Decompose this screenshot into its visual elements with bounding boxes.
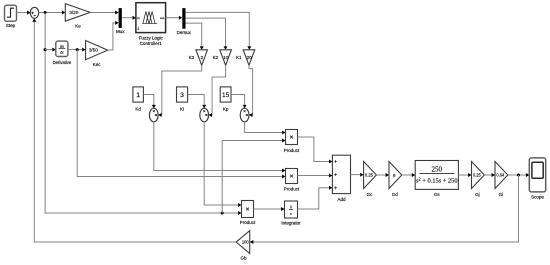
svg-text:3/50: 3/50 xyxy=(89,48,99,53)
wire Demux out3 to K3 xyxy=(186,23,204,50)
wire mult1 to Product2 xyxy=(154,122,286,173)
svg-text:100: 100 xyxy=(242,240,250,245)
svg-text:Kp: Kp xyxy=(223,106,229,111)
svg-text:Add: Add xyxy=(337,197,346,202)
svg-text:Gd: Gd xyxy=(392,192,399,197)
block Fuzzy Logic Controller1 xyxy=(136,3,166,47)
wire K1 to mult3 xyxy=(249,65,253,117)
wire Kec to Mux xyxy=(108,21,119,50)
block Product3 xyxy=(240,201,256,226)
svg-text:Ke: Ke xyxy=(75,24,81,29)
svg-text:Mux: Mux xyxy=(116,29,125,34)
svg-text:Integrator: Integrator xyxy=(281,221,301,226)
gain Gb xyxy=(236,231,250,261)
constant Kd xyxy=(133,87,144,111)
wire Add to Gc xyxy=(351,173,364,177)
svg-text:Gj: Gj xyxy=(475,192,480,197)
wire feedback to Gb xyxy=(250,175,519,244)
wire Sum to Ke, node e xyxy=(39,11,66,15)
svg-text:Product: Product xyxy=(284,186,300,191)
svg-text:Δt: Δt xyxy=(60,51,63,55)
svg-text:Product: Product xyxy=(284,148,300,153)
svg-text:K3: K3 xyxy=(189,55,195,60)
svg-text:Kd: Kd xyxy=(135,106,141,111)
svg-text:Gi: Gi xyxy=(499,192,504,197)
gain Gj xyxy=(472,162,485,197)
wire Gd to Gs xyxy=(402,173,415,177)
gain Gd xyxy=(389,162,402,197)
wire Gb to Sum xyxy=(32,18,236,242)
svg-text:20: 20 xyxy=(246,55,252,61)
svg-text:Step: Step xyxy=(6,23,16,28)
svg-text:K1: K1 xyxy=(236,55,242,60)
wire Gi to Scope xyxy=(508,173,530,177)
block Demux xyxy=(177,8,192,35)
svg-text:9: 9 xyxy=(393,173,396,178)
wire mult2 to Product3 xyxy=(204,122,241,207)
block Product1 xyxy=(284,130,300,153)
svg-text:Kec: Kec xyxy=(93,62,102,67)
sum junction xyxy=(30,7,38,18)
svg-text:Product: Product xyxy=(240,220,256,225)
svg-text:0.64: 0.64 xyxy=(496,173,505,178)
svg-text:K2: K2 xyxy=(213,55,219,60)
wire K3 to mult1 xyxy=(158,65,202,117)
svg-text:Scope: Scope xyxy=(531,194,544,199)
wire Product1 to Add xyxy=(298,137,333,164)
svg-text:0.25: 0.25 xyxy=(365,173,374,178)
svg-text:Derivative: Derivative xyxy=(53,60,72,65)
wire Mux to Fuzzy xyxy=(122,16,136,20)
svg-text:1: 1 xyxy=(136,92,140,99)
svg-text:2: 2 xyxy=(201,55,204,61)
wire Ki to mult2 xyxy=(188,95,207,109)
block Integrator xyxy=(281,201,301,226)
wire Gj to Gi xyxy=(484,173,495,177)
wire Ke to Mux xyxy=(90,11,119,15)
svg-text:Gs: Gs xyxy=(434,192,441,197)
svg-text:in: in xyxy=(137,16,140,20)
block Add xyxy=(332,155,350,202)
svg-text:Ki: Ki xyxy=(180,106,184,111)
wire Derivative to Kec xyxy=(68,48,86,52)
wire Product3 to Integrator xyxy=(254,207,285,211)
svg-text:Demux: Demux xyxy=(177,30,192,35)
gain Gi xyxy=(495,162,508,197)
svg-text:3: 3 xyxy=(180,92,184,99)
block Step xyxy=(5,5,17,28)
wire Fuzzy to Demux xyxy=(166,16,183,20)
block Derivative xyxy=(53,41,72,65)
svg-text:Controller1: Controller1 xyxy=(140,41,163,46)
multiply circle 1 (Kd x K3) xyxy=(149,108,158,122)
svg-text:Gb: Gb xyxy=(240,255,247,260)
transfer function Gs xyxy=(415,161,458,197)
multiply circle 2 (Ki x K2) xyxy=(200,108,209,122)
wire Kp to mult3 xyxy=(231,95,247,109)
wire Gc to Gd xyxy=(376,173,389,177)
gain K1 xyxy=(236,50,255,66)
svg-text:Δu: Δu xyxy=(60,44,64,48)
gain K3 xyxy=(189,50,208,66)
block Mux xyxy=(116,8,125,34)
constant Ki xyxy=(177,87,188,111)
svg-text:250: 250 xyxy=(432,166,443,174)
svg-text:10: 10 xyxy=(223,55,229,61)
svg-text:0.25: 0.25 xyxy=(473,173,482,178)
wire Product2 to Add xyxy=(298,174,333,178)
svg-text:Fuzzy Logic: Fuzzy Logic xyxy=(139,36,164,41)
block Product2 xyxy=(284,169,300,192)
block Scope xyxy=(529,158,545,199)
gain Ke xyxy=(65,4,90,29)
wire mult3 to Product1 xyxy=(245,122,286,135)
constant Kp xyxy=(220,87,231,111)
wire Gs to Gj xyxy=(458,173,471,177)
wire Step to Sum xyxy=(17,11,31,15)
wire derivative rail xyxy=(77,50,285,179)
gain K2 xyxy=(213,50,232,66)
gain Gc xyxy=(364,162,377,197)
wire Demux out1 to K1 xyxy=(186,12,252,49)
wire Demux out2 to K2 xyxy=(186,18,228,50)
wire Kd to mult1 xyxy=(143,95,155,109)
wire K2 to mult2 xyxy=(209,65,226,117)
svg-text:s2 + 0.15s + 250: s2 + 0.15s + 250 xyxy=(416,177,458,185)
wire error rail xyxy=(44,13,286,216)
svg-text:15: 15 xyxy=(222,92,230,99)
svg-text:3/20: 3/20 xyxy=(69,10,79,15)
svg-text:Gc: Gc xyxy=(367,192,374,197)
wire Integrator to Add xyxy=(298,186,333,209)
gain Kec xyxy=(86,41,108,67)
multiply circle 3 (Kp x K1) xyxy=(240,108,249,122)
svg-text:out: out xyxy=(160,16,164,20)
